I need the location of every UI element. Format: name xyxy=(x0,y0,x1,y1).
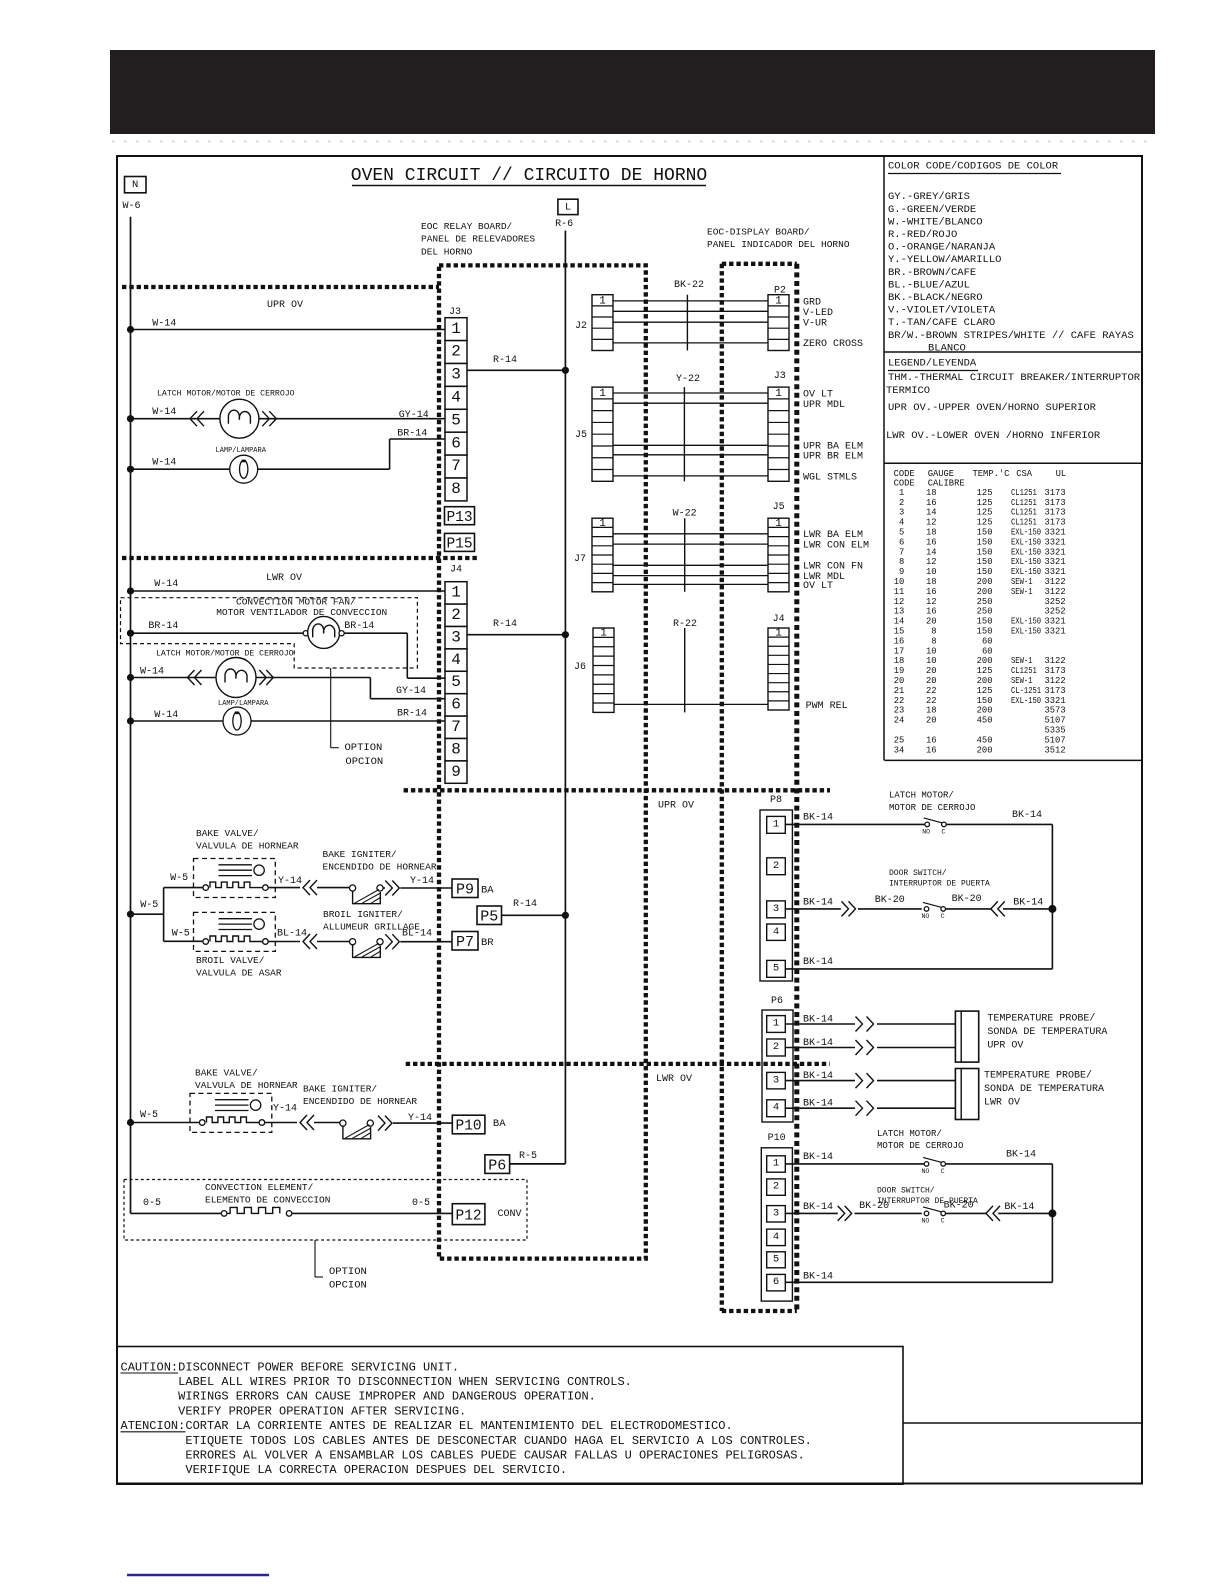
svg-text:LWR OV.-LOWER OVEN /HORNO INFE: LWR OV.-LOWER OVEN /HORNO INFERIOR xyxy=(886,430,1101,442)
svg-text:UPR OV: UPR OV xyxy=(267,300,303,311)
svg-text:150: 150 xyxy=(977,617,993,627)
bake valve upper xyxy=(194,859,276,898)
svg-text:1: 1 xyxy=(600,628,607,640)
svg-text:1: 1 xyxy=(775,628,782,640)
svg-text:3173: 3173 xyxy=(1045,488,1066,498)
svg-text:P13: P13 xyxy=(446,510,472,526)
svg-text:BK-20: BK-20 xyxy=(944,1201,974,1212)
svg-text:4: 4 xyxy=(773,1231,779,1243)
svg-text:150: 150 xyxy=(977,528,993,538)
top black banner xyxy=(110,50,1155,134)
svg-text:12: 12 xyxy=(926,518,937,528)
svg-text:1: 1 xyxy=(775,388,782,400)
connector P12 xyxy=(452,1204,521,1225)
svg-text:LAMP/LAMPARA: LAMP/LAMPARA xyxy=(218,700,269,708)
svg-text:60: 60 xyxy=(982,636,993,646)
broil igniter labels xyxy=(323,909,420,933)
svg-text:200: 200 xyxy=(977,587,993,597)
svg-text:125: 125 xyxy=(977,508,993,518)
svg-text:GRD: GRD xyxy=(803,298,821,309)
svg-text:NO: NO xyxy=(922,1217,930,1224)
svg-text:6: 6 xyxy=(773,1276,779,1288)
svg-text:CORTAR LA CORRIENTE ANTES DE R: CORTAR LA CORRIENTE ANTES DE REALIZAR EL… xyxy=(185,1419,732,1433)
svg-text:P10: P10 xyxy=(456,1119,482,1135)
svg-text:P15: P15 xyxy=(446,537,472,553)
svg-text:12: 12 xyxy=(926,597,937,607)
color code legend text xyxy=(888,161,1134,355)
svg-text:3122: 3122 xyxy=(1045,656,1066,666)
svg-text:3: 3 xyxy=(451,628,461,646)
svg-text:34: 34 xyxy=(894,745,905,755)
svg-text:10: 10 xyxy=(926,656,937,666)
label R-22 xyxy=(673,619,697,712)
wire W-14 to J3 pin 1 xyxy=(127,326,445,333)
svg-text:WGL STMLS: WGL STMLS xyxy=(803,472,857,483)
svg-text:1: 1 xyxy=(451,320,461,338)
svg-text:16: 16 xyxy=(926,607,937,617)
svg-text:BK-14: BK-14 xyxy=(1013,897,1043,908)
svg-text:1: 1 xyxy=(773,1018,779,1030)
svg-text:BR-14: BR-14 xyxy=(344,621,374,632)
connector P6 small with R-5 wire xyxy=(485,1155,510,1175)
svg-text:6: 6 xyxy=(451,696,461,714)
svg-text:ATENCION:: ATENCION: xyxy=(121,1419,186,1433)
svg-text:2: 2 xyxy=(899,498,904,508)
svg-text:BK-14: BK-14 xyxy=(803,897,833,908)
label BK-22 xyxy=(674,280,704,351)
section divider UPR OV (top left) xyxy=(122,285,439,289)
svg-text:5107: 5107 xyxy=(1045,735,1066,745)
upper latch motor xyxy=(127,388,445,438)
connector P13 xyxy=(445,507,475,525)
svg-text:18: 18 xyxy=(926,488,937,498)
svg-text:BK-14: BK-14 xyxy=(803,1152,833,1163)
svg-text:3173: 3173 xyxy=(1045,686,1066,696)
svg-text:UPR BR ELM: UPR BR ELM xyxy=(803,452,863,463)
svg-text:3321: 3321 xyxy=(1045,528,1066,538)
svg-text:CL1251: CL1251 xyxy=(1011,488,1037,498)
svg-text:UPR MDL: UPR MDL xyxy=(803,400,845,411)
svg-text:EXL-150: EXL-150 xyxy=(1011,617,1041,627)
svg-text:Y-14: Y-14 xyxy=(410,876,434,887)
svg-text:3: 3 xyxy=(773,1207,779,1219)
svg-text:LATCH MOTOR/MOTOR DE CERROJO: LATCH MOTOR/MOTOR DE CERROJO xyxy=(156,649,294,659)
svg-text:R-6: R-6 xyxy=(555,219,573,230)
svg-text:TERMICO: TERMICO xyxy=(886,385,930,397)
bake valve labels lower xyxy=(195,1068,298,1092)
svg-text:19: 19 xyxy=(894,666,905,676)
svg-text:LATCH MOTOR/MOTOR DE CERROJO: LATCH MOTOR/MOTOR DE CERROJO xyxy=(157,388,295,398)
svg-text:ENCENDIDO DE HORNEAR: ENCENDIDO DE HORNEAR xyxy=(303,1096,417,1107)
P10 door switch circuit xyxy=(785,1206,1056,1224)
svg-text:W-5: W-5 xyxy=(170,873,188,884)
P6 probe wires xyxy=(785,1014,955,1115)
svg-text:J4: J4 xyxy=(773,614,785,625)
svg-text:150: 150 xyxy=(977,547,993,557)
W-5 feed branch upper xyxy=(127,888,203,942)
upper oven lamp xyxy=(127,439,445,483)
svg-text:OVEN CIRCUIT // CIRCUITO DE HO: OVEN CIRCUIT // CIRCUITO DE HORNO xyxy=(351,166,707,186)
svg-text:13: 13 xyxy=(894,607,905,617)
svg-text:25: 25 xyxy=(894,735,905,745)
svg-text:3: 3 xyxy=(773,1074,779,1086)
option pointer lower xyxy=(315,1240,367,1292)
svg-text:SONDA DE TEMPERATURA: SONDA DE TEMPERATURA xyxy=(987,1027,1107,1038)
svg-text:9: 9 xyxy=(451,763,461,781)
svg-text:BAKE VALVE/: BAKE VALVE/ xyxy=(196,828,259,839)
svg-text:BK-22: BK-22 xyxy=(674,280,704,291)
svg-text:BK-14: BK-14 xyxy=(1004,1202,1034,1213)
svg-text:CAUTION:: CAUTION: xyxy=(121,1360,179,1374)
svg-text:Y-22: Y-22 xyxy=(676,374,700,385)
svg-text:TEMPERATURE PROBE/: TEMPERATURE PROBE/ xyxy=(987,1012,1095,1024)
connector J3 pins 1-8 xyxy=(445,318,467,501)
temperature probe LWR OV xyxy=(955,1069,978,1120)
svg-text:EXL-150: EXL-150 xyxy=(1011,528,1041,538)
svg-text:2: 2 xyxy=(773,860,779,872)
svg-text:150: 150 xyxy=(977,696,993,706)
svg-text:BAKE IGNITER/: BAKE IGNITER/ xyxy=(303,1084,377,1095)
temperature probe UPR OV xyxy=(955,1011,978,1062)
svg-text:ELEMENTO DE CONVECCION: ELEMENTO DE CONVECCION xyxy=(205,1194,330,1205)
EOC relay board dashed outline xyxy=(439,265,646,1258)
svg-text:0-5: 0-5 xyxy=(412,1198,430,1209)
svg-text:DOOR SWITCH/: DOOR SWITCH/ xyxy=(889,869,947,878)
svg-text:3573: 3573 xyxy=(1045,706,1066,716)
connector J7 xyxy=(592,518,613,592)
svg-text:V-UR: V-UR xyxy=(803,318,827,329)
svg-text:EXL-150: EXL-150 xyxy=(1011,567,1041,577)
connector P10 bake xyxy=(452,1115,506,1135)
svg-text:20: 20 xyxy=(894,676,905,686)
svg-text:10: 10 xyxy=(894,577,905,587)
svg-text:16: 16 xyxy=(926,745,937,755)
svg-text:BL-14: BL-14 xyxy=(277,929,307,940)
svg-text:PANEL INDICADOR DEL HORNO: PANEL INDICADOR DEL HORNO xyxy=(707,239,850,250)
svg-text:ERRORES AL VOLVER A ENSAMBLAR: ERRORES AL VOLVER A ENSAMBLAR LOS CABLES… xyxy=(185,1449,804,1463)
svg-text:150: 150 xyxy=(977,557,993,567)
svg-text:BR-14: BR-14 xyxy=(397,709,427,720)
label Y-22 xyxy=(676,374,700,481)
svg-text:R-5: R-5 xyxy=(519,1151,537,1162)
svg-text:BAKE VALVE/: BAKE VALVE/ xyxy=(195,1068,258,1079)
svg-text:L: L xyxy=(565,202,571,214)
svg-text:R-14: R-14 xyxy=(493,619,517,630)
harness J7-J5 wires xyxy=(613,534,768,585)
svg-text:14: 14 xyxy=(894,617,905,627)
svg-text:3173: 3173 xyxy=(1045,508,1066,518)
net labels GRD V-LED V-UR ZERO CROSS xyxy=(803,298,863,351)
svg-text:125: 125 xyxy=(977,686,993,696)
svg-text:14: 14 xyxy=(926,547,937,557)
svg-text:4: 4 xyxy=(451,389,461,407)
harness J6-J4 wire PWM xyxy=(614,703,768,705)
svg-text:GAUGE: GAUGE xyxy=(928,469,954,479)
svg-text:16: 16 xyxy=(926,735,937,745)
svg-text:SEW-1: SEW-1 xyxy=(1011,587,1033,597)
svg-text:SEW-1: SEW-1 xyxy=(1011,577,1033,587)
svg-text:14: 14 xyxy=(926,508,937,518)
svg-text:P6: P6 xyxy=(771,996,783,1007)
color code box xyxy=(884,156,1142,760)
svg-text:NO: NO xyxy=(922,913,930,920)
svg-text:BK-20: BK-20 xyxy=(859,1201,889,1212)
svg-text:BAKE IGNITER/: BAKE IGNITER/ xyxy=(323,849,397,860)
svg-text:7: 7 xyxy=(451,718,461,736)
svg-text:4: 4 xyxy=(773,926,779,938)
svg-text:PWM REL: PWM REL xyxy=(806,701,848,712)
bake igniter circuit upper xyxy=(268,880,452,904)
svg-text:G.-GREEN/VERDE: G.-GREEN/VERDE xyxy=(888,204,976,216)
bake valve lower xyxy=(190,1093,272,1132)
svg-text:20: 20 xyxy=(926,716,937,726)
svg-text:17: 17 xyxy=(894,646,905,656)
svg-text:3321: 3321 xyxy=(1045,557,1066,567)
svg-text:J6: J6 xyxy=(574,662,586,673)
svg-text:5107: 5107 xyxy=(1045,716,1066,726)
svg-text:18: 18 xyxy=(926,528,937,538)
svg-text:LAMP/LAMPARA: LAMP/LAMPARA xyxy=(216,447,267,455)
svg-text:BL-14: BL-14 xyxy=(402,929,432,940)
P10 latch motor circuit xyxy=(785,1157,1052,1282)
door switch labels lower xyxy=(877,1186,978,1206)
svg-text:BROIL VALVE/: BROIL VALVE/ xyxy=(196,955,265,966)
convection motor fan labels xyxy=(216,597,387,618)
svg-text:P5: P5 xyxy=(480,909,498,926)
connector P15 xyxy=(445,533,475,551)
page footer blue rule xyxy=(127,1574,269,1577)
svg-text:1: 1 xyxy=(599,518,606,530)
svg-text:3173: 3173 xyxy=(1045,498,1066,508)
door switch labels upper xyxy=(889,869,990,889)
svg-text:PANEL DE RELEVADORES: PANEL DE RELEVADORES xyxy=(421,234,535,245)
svg-text:W-5: W-5 xyxy=(140,900,158,911)
svg-text:Y-14: Y-14 xyxy=(408,1113,432,1124)
svg-text:CL-1251: CL-1251 xyxy=(1011,686,1041,696)
svg-text:W-5: W-5 xyxy=(172,929,190,940)
svg-text:BK-14: BK-14 xyxy=(803,1071,833,1082)
wire W-14 to J4 pin 1 xyxy=(127,587,445,594)
svg-text:3173: 3173 xyxy=(1045,666,1066,676)
svg-text:16: 16 xyxy=(926,537,937,547)
svg-text:BK-14: BK-14 xyxy=(803,1271,833,1282)
P8 pin5 return wire xyxy=(785,968,1052,970)
svg-text:16: 16 xyxy=(926,498,937,508)
svg-text:UPR OV.-UPPER OVEN/HORNO SUPER: UPR OV.-UPPER OVEN/HORNO SUPERIOR xyxy=(888,402,1097,414)
svg-text:P9: P9 xyxy=(456,882,474,899)
svg-text:GY-14: GY-14 xyxy=(396,686,426,697)
svg-text:125: 125 xyxy=(977,498,993,508)
banner residue line xyxy=(112,141,1150,143)
svg-text:BR/W.-BROWN STRIPES/WHITE // C: BR/W.-BROWN STRIPES/WHITE // CAFE RAYAS xyxy=(888,330,1134,342)
svg-text:24: 24 xyxy=(894,716,905,726)
svg-text:5335: 5335 xyxy=(1045,726,1066,736)
svg-text:125: 125 xyxy=(977,666,993,676)
svg-text:12: 12 xyxy=(926,557,937,567)
svg-text:J2: J2 xyxy=(575,321,587,332)
svg-text:DOOR SWITCH/: DOOR SWITCH/ xyxy=(877,1186,935,1195)
svg-text:BROIL IGNITER/: BROIL IGNITER/ xyxy=(323,909,403,920)
svg-text:P8: P8 xyxy=(770,795,782,806)
svg-text:3512: 3512 xyxy=(1045,745,1066,755)
svg-text:8: 8 xyxy=(931,636,936,646)
svg-text:3252: 3252 xyxy=(1045,597,1066,607)
svg-text:THM.-THERMAL CIRCUIT BREAKER/I: THM.-THERMAL CIRCUIT BREAKER/INTERRUPTOR xyxy=(888,372,1141,384)
svg-text:20: 20 xyxy=(926,666,937,676)
svg-text:LATCH MOTOR/: LATCH MOTOR/ xyxy=(889,791,954,801)
svg-text:200: 200 xyxy=(977,745,993,755)
svg-text:BK-20: BK-20 xyxy=(952,894,982,905)
svg-text:OPCION: OPCION xyxy=(329,1280,367,1292)
convection motor fan xyxy=(127,616,445,678)
svg-text:BA: BA xyxy=(493,1118,506,1130)
svg-text:BK.-BLACK/NEGRO: BK.-BLACK/NEGRO xyxy=(888,292,983,304)
svg-text:BLANCO: BLANCO xyxy=(928,342,966,354)
svg-text:8: 8 xyxy=(451,480,461,498)
svg-text:J5: J5 xyxy=(575,430,587,441)
svg-text:6: 6 xyxy=(451,434,461,452)
net labels LWR BA ELM LWR CON ELM LWR CON FN LWR MDL OV LT xyxy=(803,530,869,592)
svg-text:J3: J3 xyxy=(774,371,786,382)
upper latch motor switch labels xyxy=(889,791,975,813)
svg-text:CODE: CODE xyxy=(894,469,915,479)
P8 door switch circuit xyxy=(785,901,1056,919)
svg-text:LWR CON ELM: LWR CON ELM xyxy=(803,540,869,551)
svg-text:1: 1 xyxy=(773,1158,779,1170)
svg-text:BR.-BROWN/CAFE: BR.-BROWN/CAFE xyxy=(888,267,976,279)
svg-text:3173: 3173 xyxy=(1045,518,1066,528)
broil igniter circuit xyxy=(268,934,452,957)
svg-text:Y-14: Y-14 xyxy=(278,876,302,887)
svg-text:W-14: W-14 xyxy=(152,457,176,468)
svg-text:1: 1 xyxy=(451,584,461,602)
svg-text:7: 7 xyxy=(899,547,904,557)
svg-text:BK-14: BK-14 xyxy=(803,957,833,968)
svg-text:8: 8 xyxy=(899,557,904,567)
wire R-14 from J4 pin 3 xyxy=(467,631,569,638)
connector P8 xyxy=(760,810,792,981)
svg-text:16: 16 xyxy=(926,587,937,597)
svg-text:150: 150 xyxy=(977,627,993,637)
svg-text:CL1251: CL1251 xyxy=(1011,498,1037,508)
svg-text:18: 18 xyxy=(926,577,937,587)
svg-text:TEMPERATURE PROBE/: TEMPERATURE PROBE/ xyxy=(984,1070,1092,1082)
svg-text:18: 18 xyxy=(926,706,937,716)
svg-text:DEL HORNO: DEL HORNO xyxy=(421,246,473,257)
legend box text xyxy=(886,358,1141,443)
svg-text:2: 2 xyxy=(773,1041,779,1053)
label W-22 xyxy=(673,509,697,592)
svg-text:R-14: R-14 xyxy=(493,355,517,366)
node L terminal xyxy=(558,199,578,214)
svg-text:CL1251: CL1251 xyxy=(1011,666,1037,676)
svg-text:W-14: W-14 xyxy=(140,666,164,677)
svg-text:T.-TAN/CAFE CLARO: T.-TAN/CAFE CLARO xyxy=(888,317,995,329)
svg-text:15: 15 xyxy=(894,627,905,637)
broil valve xyxy=(194,912,276,951)
section divider UPR OV (right) xyxy=(404,788,830,792)
connector J2 xyxy=(592,295,613,351)
lower latch motor switch labels xyxy=(877,1129,963,1151)
svg-text:BK-14: BK-14 xyxy=(803,1014,833,1025)
svg-text:3122: 3122 xyxy=(1045,587,1066,597)
svg-text:EXL-150: EXL-150 xyxy=(1011,547,1041,557)
svg-text:3321: 3321 xyxy=(1045,617,1066,627)
svg-text:2: 2 xyxy=(451,606,461,624)
svg-text:COLOR CODE/CODIGOS DE COLOR: COLOR CODE/CODIGOS DE COLOR xyxy=(888,161,1059,173)
svg-text:EOC-DISPLAY BOARD/: EOC-DISPLAY BOARD/ xyxy=(707,226,810,237)
node N terminal xyxy=(125,177,147,193)
convection element labels xyxy=(205,1182,330,1206)
svg-text:18: 18 xyxy=(894,656,905,666)
svg-text:23: 23 xyxy=(894,706,905,716)
svg-text:V.-VIOLET/VIOLETA: V.-VIOLET/VIOLETA xyxy=(888,305,996,317)
svg-text:22: 22 xyxy=(926,696,937,706)
svg-text:4: 4 xyxy=(451,651,461,669)
svg-text:W-14: W-14 xyxy=(152,318,176,329)
wire R-14 from J3 pin 3 xyxy=(467,367,569,374)
svg-text:CONVECTION ELEMENT/: CONVECTION ELEMENT/ xyxy=(205,1182,314,1193)
svg-text:6: 6 xyxy=(899,537,904,547)
svg-text:EXL-150: EXL-150 xyxy=(1011,696,1041,706)
svg-text:OPCION: OPCION xyxy=(345,756,383,768)
option pointer upper xyxy=(331,668,384,768)
svg-text:3321: 3321 xyxy=(1045,537,1066,547)
svg-text:BL.-BLUE/AZUL: BL.-BLUE/AZUL xyxy=(888,279,970,291)
svg-text:J4: J4 xyxy=(450,564,462,575)
convection motor fan option dashed box xyxy=(121,598,418,668)
harness J2-P2 wires xyxy=(613,301,768,343)
svg-text:W-5: W-5 xyxy=(140,1110,158,1121)
page outer border xyxy=(117,156,1142,1484)
svg-text:3: 3 xyxy=(451,366,461,384)
svg-text:W-14: W-14 xyxy=(154,710,178,721)
svg-text:8: 8 xyxy=(451,740,461,758)
svg-text:450: 450 xyxy=(977,735,993,745)
svg-text:1: 1 xyxy=(775,295,782,307)
svg-text:125: 125 xyxy=(977,518,993,528)
svg-text:21: 21 xyxy=(894,686,905,696)
svg-text:VERIFIQUE LA CORRECTA OPERACIO: VERIFIQUE LA CORRECTA OPERACION DESPUES … xyxy=(185,1463,567,1477)
svg-text:200: 200 xyxy=(977,676,993,686)
svg-text:150: 150 xyxy=(977,567,993,577)
svg-text:EXL-150: EXL-150 xyxy=(1011,627,1041,637)
svg-text:GY-14: GY-14 xyxy=(399,410,429,421)
svg-text:1: 1 xyxy=(599,295,606,307)
svg-text:SONDA DE TEMPERATURA: SONDA DE TEMPERATURA xyxy=(984,1084,1104,1095)
svg-text:8: 8 xyxy=(931,627,936,637)
svg-text:BR-14: BR-14 xyxy=(148,621,178,632)
svg-text:VALVULA DE HORNEAR: VALVULA DE HORNEAR xyxy=(195,1080,298,1091)
svg-text:BR-14: BR-14 xyxy=(397,429,427,440)
svg-text:V-LED: V-LED xyxy=(803,308,833,319)
EOC display board dashed outline xyxy=(722,264,797,1311)
svg-text:SEW-1: SEW-1 xyxy=(1011,676,1033,686)
svg-text:10: 10 xyxy=(926,646,937,656)
section divider LWR OV (right) xyxy=(406,1062,830,1066)
svg-text:60: 60 xyxy=(982,646,993,656)
svg-text:3321: 3321 xyxy=(1045,547,1066,557)
svg-text:7: 7 xyxy=(451,457,461,475)
svg-text:20: 20 xyxy=(926,617,937,627)
svg-text:450: 450 xyxy=(977,716,993,726)
svg-text:P7: P7 xyxy=(456,934,474,951)
svg-text:BK-14: BK-14 xyxy=(803,1202,833,1213)
svg-text:2: 2 xyxy=(773,1181,779,1193)
svg-text:5: 5 xyxy=(451,673,461,691)
svg-text:EXL-150: EXL-150 xyxy=(1011,537,1041,547)
title OVEN CIRCUIT // CIRCUITO DE HORNO xyxy=(351,166,707,186)
